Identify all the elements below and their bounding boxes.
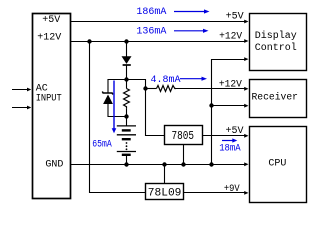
current arrow 136mA blue — [174, 29, 209, 33]
svg-text:186mA: 186mA — [136, 7, 166, 18]
wire GND rail from AC box to CPU — [71, 164, 246, 166]
wire diode D1 cathode to node Y — [126, 65, 128, 89]
wire +12V rail from AC box to Display Control — [71, 41, 246, 43]
wire 78L09 output +9V to CPU — [184, 192, 246, 194]
junction dot +12V/x127 — [124, 39, 128, 43]
wire zener anode down and across to battery top node — [108, 104, 127, 117]
current arrow 18mA blue — [222, 138, 237, 142]
wire node Y rail to zener and 7805 branch — [108, 80, 146, 94]
wire diode D1 anode from +12V rail — [126, 42, 128, 57]
wire 7805 ground pin — [183, 145, 185, 165]
wire 7805 output +5V to CPU — [203, 135, 246, 137]
wire ground vertical x=211 up to Display Control — [212, 60, 246, 165]
Display Control box U2 — [250, 14, 307, 71]
junction gnd rail battery dot — [124, 162, 128, 166]
wire AC input line 1 — [12, 89, 29, 91]
battery BT1 backup cells — [117, 126, 136, 155]
junction gnd rail x211 dot — [209, 162, 213, 166]
junction gnd rail 7805 dot — [181, 162, 185, 166]
junction node Y dot — [124, 77, 128, 81]
current arrow 186mA blue — [174, 9, 210, 13]
svg-text:7805: 7805 — [172, 129, 195, 143]
regulator 7805 box U5 — [165, 126, 203, 145]
arrowhead into Display Control +5V — [244, 20, 248, 24]
svg-text:+5V: +5V — [226, 126, 244, 137]
wire receiver +12V feed left of resistor R2 — [146, 88, 157, 90]
svg-text:INPUT: INPUT — [36, 94, 62, 105]
resistor R1 vertical charge-limit — [124, 89, 130, 109]
arrowhead into Display Control GND — [244, 57, 248, 61]
svg-text:65mA: 65mA — [92, 140, 112, 151]
svg-text:4.8mA: 4.8mA — [151, 75, 181, 86]
svg-text:Receiver: Receiver — [252, 92, 299, 104]
arrowhead AC input 2 — [27, 106, 31, 110]
junction dot +12V/x89 — [87, 39, 91, 43]
battery ellipsis dots — [126, 142, 128, 144]
svg-text:GND: GND — [45, 160, 63, 171]
junction resistor R2 feed dot — [143, 86, 147, 90]
svg-text:+9V: +9V — [224, 184, 240, 195]
svg-text:+5V: +5V — [226, 12, 244, 23]
svg-text:+12V: +12V — [37, 32, 61, 43]
arrowhead into CPU +5V — [244, 134, 248, 138]
junction gnd rail 78L09 dot — [162, 162, 166, 166]
AC input power supply box — [33, 14, 71, 199]
junction battery top dot — [124, 114, 128, 118]
wire ground branch to Receiver — [212, 105, 246, 107]
wire receiver +12V feed right of resistor R2 — [176, 88, 245, 90]
wire resistor R1 bottom to battery top node — [126, 108, 128, 126]
arrowhead into Receiver GND — [244, 104, 248, 108]
svg-text:+12V: +12V — [219, 31, 242, 42]
svg-text:+5V: +5V — [42, 15, 60, 26]
svg-text:Control: Control — [255, 42, 297, 54]
junction receiver gnd dot — [209, 103, 213, 107]
svg-text:Display: Display — [255, 30, 297, 42]
svg-text:18mA: 18mA — [219, 143, 241, 154]
resistor R2 horizontal 4.8mA feed — [157, 86, 177, 92]
CPU box U4 — [250, 127, 307, 203]
regulator 78L09 box U6 — [146, 184, 184, 200]
arrowhead into CPU GND — [244, 162, 248, 166]
svg-text:CPU: CPU — [268, 158, 286, 169]
svg-text:136mA: 136mA — [136, 26, 166, 37]
zener diode D2 — [102, 92, 113, 105]
wire vertical +12V feed down to 78L09 input — [90, 42, 146, 193]
arrowhead into Receiver +12V — [244, 87, 248, 91]
arrowhead into CPU +9V — [244, 191, 248, 195]
svg-text:+12V: +12V — [219, 80, 242, 91]
wire AC input line 2 — [12, 107, 29, 109]
arrowhead into Display Control +12V — [244, 39, 248, 43]
arrowhead AC input 1 — [27, 88, 31, 92]
wire 78L09 ground pin — [164, 165, 166, 184]
svg-text:78L09: 78L09 — [148, 188, 182, 200]
diode D1 series from +12V — [122, 56, 132, 65]
wire battery negative to ground rail — [126, 155, 128, 165]
current arrow 65mA blue vertical — [112, 81, 117, 134]
wire +5V rail from AC box to Display Control — [71, 21, 246, 23]
wire 7805 input from node — [146, 89, 165, 136]
current arrow 4.8mA blue — [180, 77, 207, 81]
Receiver box U3 — [250, 80, 307, 118]
